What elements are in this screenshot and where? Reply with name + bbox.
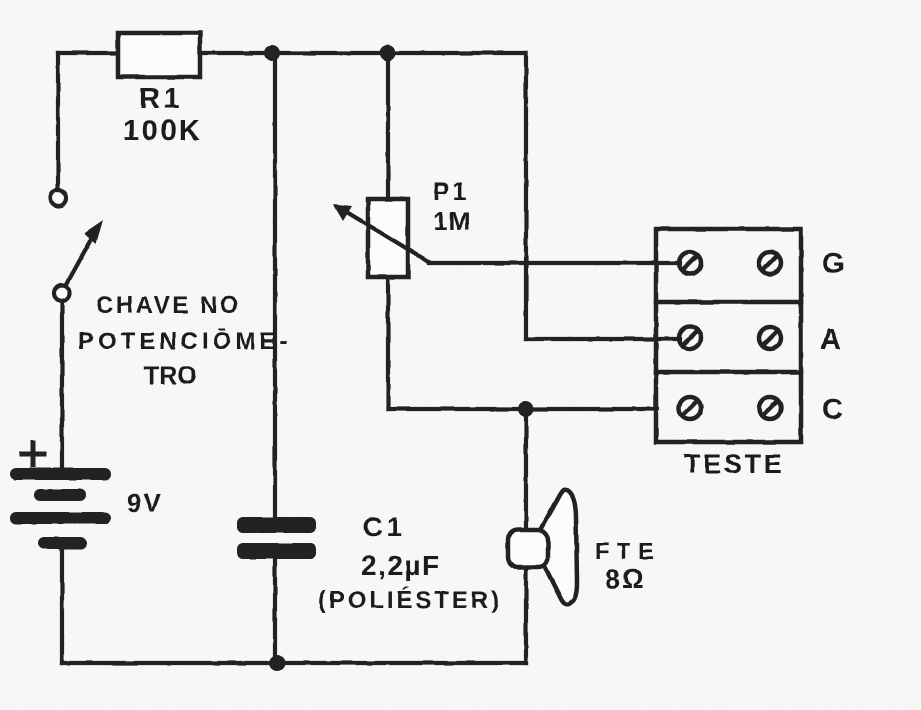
wire C row horizontal	[388, 407, 657, 411]
svg-text:CHAVE NO: CHAVE NO	[96, 292, 241, 319]
terminal block TESTE	[656, 229, 801, 442]
svg-text:8Ω: 8Ω	[605, 564, 646, 594]
svg-text:R1: R1	[139, 83, 183, 115]
wire battery to bottom	[60, 549, 64, 663]
svg-text:100K: 100K	[123, 115, 202, 147]
wire switch to battery	[60, 301, 64, 470]
screw G left	[679, 252, 701, 274]
screw G right	[759, 252, 781, 274]
wire speaker vertical top	[524, 409, 528, 533]
wire left vertical to switch	[56, 53, 60, 190]
wire C1 branch top	[273, 53, 277, 524]
speaker FTE	[508, 490, 577, 605]
svg-text:FTE: FTE	[595, 538, 661, 564]
wire bottom horizontal	[62, 661, 526, 665]
potentiometer P1	[333, 199, 429, 277]
wire right vertical A branch	[524, 53, 528, 339]
svg-text:TRO: TRO	[144, 362, 197, 390]
wire G wiper horizontal	[429, 261, 680, 265]
junction top left	[264, 45, 280, 61]
screw A left	[679, 327, 701, 349]
svg-text:C: C	[822, 394, 843, 426]
wire C1 branch bottom	[273, 552, 277, 663]
junction bottom C1	[269, 655, 285, 671]
svg-text:A: A	[820, 324, 841, 356]
svg-text:POTENCIŌME-: POTENCIŌME-	[78, 328, 291, 355]
svg-text:1M: 1M	[433, 206, 471, 236]
wire speaker vertical bottom	[524, 564, 528, 663]
wire P1 branch top	[386, 53, 390, 200]
wire P1 bottom vertical	[386, 276, 390, 409]
switch S1 CHAVE	[50, 190, 103, 301]
junction top middle	[380, 45, 396, 61]
svg-text:2,2µF: 2,2µF	[361, 550, 441, 581]
svg-text:9V: 9V	[127, 488, 163, 518]
screw C right	[759, 397, 781, 419]
capacitor C1	[237, 517, 316, 559]
screw A right	[759, 327, 781, 349]
svg-text:C1: C1	[363, 512, 406, 542]
svg-text:P1: P1	[433, 178, 470, 206]
svg-text:(POLIÉSTER): (POLIÉSTER)	[318, 586, 502, 614]
wire top horizontal	[58, 51, 526, 55]
battery B1 9V	[10, 443, 111, 549]
screw C left	[679, 397, 701, 419]
resistor R1	[118, 33, 200, 77]
svg-text:TESTE: TESTE	[684, 449, 785, 479]
svg-text:G: G	[822, 248, 845, 280]
junction speaker node	[518, 401, 534, 417]
wire A horizontal	[526, 337, 680, 341]
